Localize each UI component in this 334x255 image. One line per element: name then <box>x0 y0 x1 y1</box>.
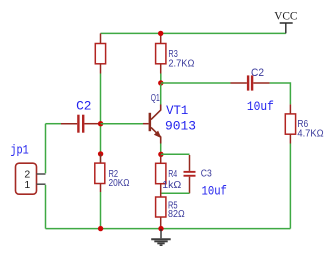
svg-text:10uf: 10uf <box>202 184 227 199</box>
resistor R1 (unlabeled, top-left) <box>95 33 105 73</box>
svg-text:C2: C2 <box>251 67 264 79</box>
ground <box>151 229 171 245</box>
capacitor C3 <box>161 154 227 198</box>
transistor Q1 <box>143 93 196 143</box>
wire: pin1 down to ground rail <box>45 185 47 229</box>
node: collector junction <box>158 80 163 85</box>
svg-text:jp1: jp1 <box>10 143 29 158</box>
wire: R3 bottom to collector node <box>160 74 162 84</box>
wire: node to C2 (right) <box>161 82 231 84</box>
svg-text:20KΩ: 20KΩ <box>109 178 130 189</box>
svg-text:2.7KΩ: 2.7KΩ <box>168 58 194 69</box>
svg-text:4.7KΩ: 4.7KΩ <box>297 129 324 140</box>
capacitor C2 (left) <box>46 98 99 132</box>
svg-text:C3: C3 <box>201 169 212 180</box>
wire top rail <box>101 32 286 34</box>
svg-text:9013: 9013 <box>165 118 196 133</box>
svg-text:VCC: VCC <box>274 9 297 23</box>
wire: R6 bottom to ground rail <box>289 144 291 229</box>
node: junction dot top of R3 <box>158 31 163 36</box>
svg-text:Q1: Q1 <box>151 93 160 104</box>
wire: collector up <box>160 84 162 105</box>
wire: left column below R1 <box>100 74 102 153</box>
svg-text:VT1: VT1 <box>166 103 188 118</box>
wire: base wire from node to transistor <box>101 123 143 125</box>
wire: emitter down <box>160 144 162 154</box>
node: emitter junction <box>158 152 163 157</box>
svg-text:82Ω: 82Ω <box>168 209 185 220</box>
node: bottom junction at ground <box>158 226 163 231</box>
svg-text:1: 1 <box>24 179 30 191</box>
resistor R5 <box>156 197 186 229</box>
resistor R6 <box>285 104 324 143</box>
resistor R4 <box>156 154 182 197</box>
node: bottom junction at R2 column <box>98 226 103 231</box>
svg-text:1kΩ: 1kΩ <box>162 180 182 191</box>
wire: bottom ground rail <box>46 228 291 230</box>
wire: left column to pin2 <box>45 124 47 174</box>
capacitor C2 (right) <box>231 67 274 114</box>
wire: R2 bottom to ground rail <box>100 192 102 229</box>
connector jp1 <box>10 143 45 195</box>
svg-text:10uf: 10uf <box>247 99 274 114</box>
svg-text:C2: C2 <box>76 98 91 113</box>
resistor R3 <box>156 33 195 73</box>
power VCC <box>274 9 297 34</box>
pin 2 <box>37 173 46 175</box>
pin 1 <box>37 183 46 185</box>
wire: C2 right to R6 top <box>270 83 291 104</box>
resistor R2 <box>95 154 130 192</box>
node: junction dot above R2 <box>98 151 103 156</box>
node: junction dot at C2 left / base wire <box>98 121 103 126</box>
svg-text:R4: R4 <box>168 169 177 180</box>
